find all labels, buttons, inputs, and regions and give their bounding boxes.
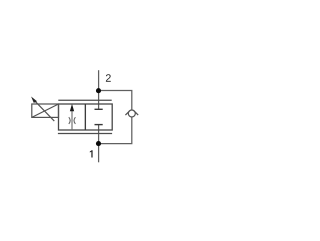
left square arrow head xyxy=(70,104,74,111)
wire port 2 vertical xyxy=(98,70,100,109)
envelope divider xyxy=(84,104,86,130)
junction node bottom (port 1) xyxy=(96,141,101,146)
check valve seat right xyxy=(134,111,138,115)
check valve circle xyxy=(128,110,135,117)
proportional rail bottom xyxy=(58,133,112,135)
label port 1 xyxy=(90,150,93,157)
wire port 1 vertical xyxy=(98,125,100,163)
wire branch top horizontal xyxy=(99,91,132,111)
junction node top (port 2) xyxy=(96,88,101,93)
right square blocked port top T xyxy=(95,108,103,110)
wire branch bottom xyxy=(99,117,132,144)
solenoid box xyxy=(32,104,59,117)
proportional rail top xyxy=(58,99,111,101)
proportional arrow head xyxy=(31,97,37,103)
left square flow line xyxy=(71,110,73,131)
check valve seat left xyxy=(125,111,129,115)
proportional arrow line xyxy=(33,99,54,121)
valve envelope xyxy=(59,104,113,130)
solenoid slash xyxy=(32,104,59,117)
right square blocked port bottom T xyxy=(95,124,103,126)
label port 2 xyxy=(106,74,111,81)
restriction arcs xyxy=(69,117,70,124)
